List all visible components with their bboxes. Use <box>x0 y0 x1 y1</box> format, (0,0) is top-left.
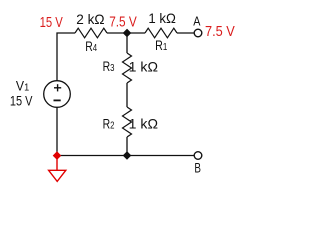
svg-text:R3: R3 <box>103 58 115 74</box>
ground node junction dot (red) <box>53 152 60 159</box>
resistor R3 body <box>123 53 132 83</box>
svg-text:R4: R4 <box>85 38 97 54</box>
svg-text:1 kΩ: 1 kΩ <box>129 59 158 75</box>
svg-text:15 V: 15 V <box>40 15 63 31</box>
svg-text:2 kΩ: 2 kΩ <box>76 11 104 27</box>
voltage source V1 circle <box>44 81 71 108</box>
wire: V1 top to top-left corner to R4 left lead <box>57 33 75 81</box>
svg-text:7.5 V: 7.5 V <box>109 15 137 31</box>
ground stem (red) <box>56 156 58 170</box>
svg-text:15 V: 15 V <box>10 93 33 108</box>
wire: R4 right lead to node and on to R1 left lead <box>107 32 145 34</box>
wire: top node down to R3 <box>126 33 128 53</box>
svg-text:R2: R2 <box>103 115 115 131</box>
V1 minus sign <box>54 99 61 101</box>
terminal B circle <box>194 152 202 160</box>
V1 plus sign <box>54 84 61 91</box>
svg-text:1 kΩ: 1 kΩ <box>148 10 176 26</box>
node junction dot at top (R4/R1/R3) <box>123 29 130 36</box>
terminal A circle <box>194 29 202 37</box>
ground triangle symbol <box>49 170 66 181</box>
node junction dot at bottom (R2/rail) <box>123 152 130 159</box>
wire: bottom rail to terminal B <box>57 155 194 157</box>
resistor R2 body <box>123 107 132 137</box>
svg-text:7.5 V: 7.5 V <box>205 24 235 40</box>
svg-text:A: A <box>193 13 200 28</box>
wire: R1 right lead to terminal A <box>177 32 194 34</box>
svg-text:V1: V1 <box>16 78 29 94</box>
svg-text:B: B <box>194 161 201 176</box>
resistor R4 body <box>75 28 107 38</box>
resistor R1 body <box>145 28 177 38</box>
svg-text:R1: R1 <box>155 37 167 53</box>
wire: R3 bottom to R2 top <box>126 83 128 107</box>
svg-text:1 kΩ: 1 kΩ <box>129 116 158 132</box>
wire: V1 bottom to bottom-left corner <box>56 107 58 155</box>
wire: R2 bottom to bottom rail <box>126 137 128 156</box>
